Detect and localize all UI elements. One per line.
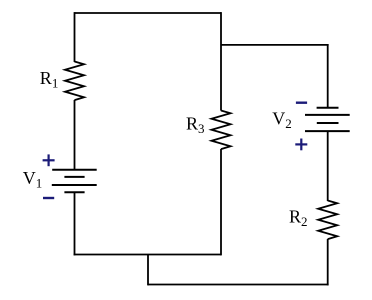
svg-text:V2: V2 (272, 108, 292, 131)
wire middle vertical upper (220, 12, 222, 111)
svg-text:R1: R1 (40, 68, 59, 91)
battery V1 (52, 170, 97, 193)
wire left vertical lower (V1 to bottom) (74, 192, 76, 255)
polarity - of V2 (296, 101, 307, 103)
wire middle horizontal (node to right branch) (221, 44, 329, 46)
wire middle vertical lower (220, 149, 222, 255)
resistor R3 (212, 111, 231, 150)
svg-text:R2: R2 (289, 206, 308, 229)
resistor R2 (318, 201, 337, 240)
battery V2 (305, 108, 350, 131)
svg-text:R3: R3 (186, 113, 205, 136)
wire bottom rail (148, 284, 329, 286)
resistor R1 (65, 62, 84, 101)
wire bottom of left loop (74, 254, 221, 256)
wire right vertical upper (327, 44, 329, 108)
polarity + of V1 (43, 154, 55, 166)
wire right vertical lower (R2 to bottom rail) (327, 239, 329, 285)
svg-text:V1: V1 (23, 168, 43, 191)
wire left vertical upper (74, 12, 76, 62)
junction drop wire (147, 255, 149, 286)
wire right vertical middle (V2 to R2) (327, 131, 329, 201)
wire left vertical middle (R1 to V1) (74, 100, 76, 170)
polarity - of V1 (43, 197, 54, 199)
polarity + of V2 (295, 139, 307, 151)
wire top: node between R1 and R3 (75, 12, 222, 14)
